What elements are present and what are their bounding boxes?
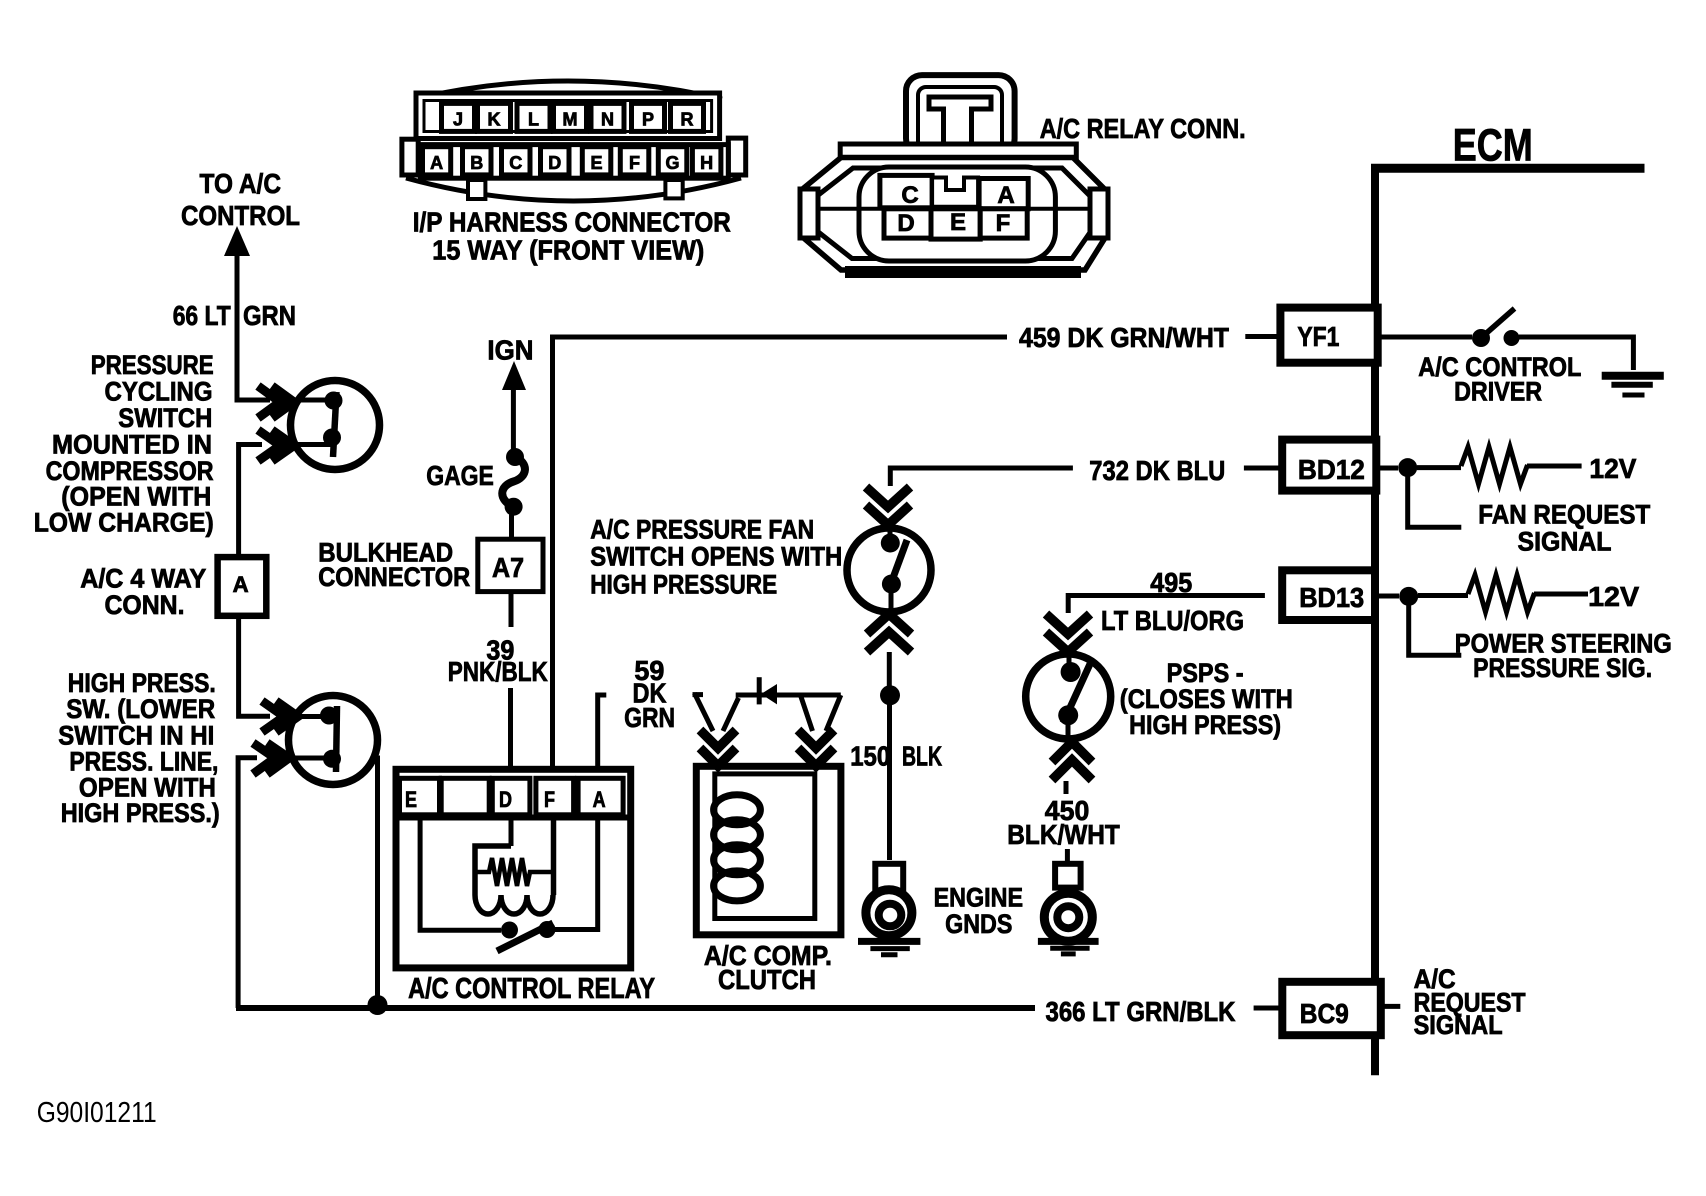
svg-text:15 WAY (FRONT VIEW): 15 WAY (FRONT VIEW) (432, 235, 704, 266)
svg-text:J: J (453, 110, 463, 130)
svg-text:HIGH PRESS): HIGH PRESS) (1129, 710, 1281, 740)
connector arrows into fan pressure switch top (866, 487, 910, 525)
svg-text:G: G (665, 153, 679, 173)
label ENGINE GNDS (934, 883, 1024, 939)
svg-text:C: C (509, 153, 522, 173)
relay K1 A/C control relay outer box (396, 769, 631, 968)
relay conn center key notch (932, 178, 978, 207)
label HIGH PRESS. SW. (LOWER SWITCH IN HI PRESS. LINE, OPEN WITH HIGH PRESS.) (58, 668, 219, 828)
label A/C REQUEST SIGNAL (1414, 964, 1526, 1040)
connector A (A/C 4 way conn.) (218, 557, 267, 616)
svg-text:CYCLING: CYCLING (105, 377, 213, 407)
svg-text:K: K (488, 110, 501, 130)
node TO A/C CONTROL label (181, 168, 300, 231)
svg-text:H: H (700, 153, 713, 173)
svg-text:HIGH PRESSURE: HIGH PRESSURE (590, 570, 777, 600)
svg-text:F: F (996, 210, 1011, 237)
connector arrows from high pressure switch pin 2 (253, 743, 289, 774)
label A/C CONTROL DRIVER (1418, 352, 1581, 407)
clutch coil windings (714, 795, 761, 901)
connector arrows from fan pressure switch bottom (867, 614, 911, 652)
svg-text:A/C 4 WAY: A/C 4 WAY (80, 564, 206, 594)
label FAN REQUEST SIGNAL (1478, 499, 1650, 556)
wire right V arrow into clutch (798, 695, 841, 766)
svg-text:GRN: GRN (624, 702, 675, 733)
svg-text:HIGH PRESS.): HIGH PRESS.) (61, 798, 220, 828)
relay coil cup (475, 846, 553, 914)
connector A7 (bulkhead connector) (478, 539, 543, 591)
ECM pin YF1 box (1280, 308, 1377, 363)
wire stub fan request signal (1408, 476, 1462, 527)
wire BD13 to 12V pull-up (1375, 594, 1399, 599)
wire stub power steering signal (1409, 604, 1462, 655)
svg-text:SWITCH OPENS WITH: SWITCH OPENS WITH (590, 542, 842, 572)
svg-text:D: D (897, 210, 914, 237)
svg-text:A/C RELAY CONN.: A/C RELAY CONN. (1040, 113, 1246, 144)
wire 459 DK GRN/WHT from relay pin F up and right (553, 337, 1008, 769)
svg-text:M: M (563, 110, 578, 130)
svg-text:12V: 12V (1589, 453, 1636, 484)
junction clutch/diode/fan switch net (880, 685, 900, 705)
relay internal wire pin A to switch contact (555, 818, 598, 930)
wire 39 PNK/BLK into relay pin D (508, 688, 513, 769)
label POWER STEERING PRESSURE SIG. (1455, 629, 1672, 683)
relay conn pin A (979, 179, 1028, 210)
svg-text:B: B (470, 153, 483, 173)
svg-text:P: P (642, 110, 654, 130)
relay internal wire pin F to coil (551, 818, 557, 896)
svg-text:366 LT GRN/BLK: 366 LT GRN/BLK (1046, 996, 1236, 1027)
wire 450 BLK/WHT to engine ground 2 (1065, 849, 1070, 864)
label BULKHEAD CONNECTOR (318, 537, 470, 592)
wire A connector to high pressure switch (239, 616, 270, 717)
resistor R1 pull-up (1461, 447, 1528, 484)
wire high pressure switch right stub down (372, 758, 378, 1004)
svg-text:495: 495 (1150, 567, 1192, 598)
connector pin N (591, 103, 624, 131)
wire PSPS to 450 BLK/WHT (1064, 781, 1069, 794)
value label 150 BLK (850, 740, 942, 771)
connector pin M (554, 103, 587, 131)
svg-text:SWITCH: SWITCH (118, 403, 212, 433)
label PRESSURE CYCLING SWITCH MOUNTED IN COMPRESSOR (OPEN WITH LOW CHARGE) (34, 350, 214, 538)
ECM pin BD13 box (1282, 570, 1375, 620)
relay conn pin F (980, 209, 1027, 238)
junction BD13 net (1399, 587, 1418, 606)
wire bottom net right segment into BC9 (1254, 1006, 1283, 1011)
svg-text:PNK/BLK: PNK/BLK (448, 656, 548, 687)
connector arrows into PSPS top (1046, 614, 1090, 652)
svg-text:D: D (499, 787, 512, 812)
label A/C PRESSURE FAN SWITCH OPENS WITH HIGH PRESSURE (590, 514, 842, 599)
ground engine ground symbol 1 (858, 864, 920, 955)
relay internal wire pin E to switch contact (420, 818, 501, 931)
wire relay pin A up to 59 DK GRN (598, 695, 607, 769)
connector A/C relay conn body (800, 75, 1108, 278)
svg-text:I/P HARNESS CONNECTOR: I/P HARNESS CONNECTOR (413, 206, 731, 237)
svg-text:F: F (629, 153, 640, 173)
relay pin D box (492, 778, 530, 815)
svg-text:SIGNAL: SIGNAL (1518, 527, 1612, 557)
connector arrows into pressure cycling switch pin 1 (258, 386, 294, 418)
connector arrows from pressure cycling switch pin 2 (258, 430, 294, 461)
svg-text:A: A (430, 153, 443, 173)
svg-text:LT BLU/ORG: LT BLU/ORG (1101, 605, 1244, 636)
relay pin F box (536, 778, 574, 815)
svg-text:MOUNTED IN: MOUNTED IN (52, 430, 212, 460)
value label 450 BLK/WHT (1007, 795, 1120, 850)
relay unlabeled pin box (441, 778, 489, 815)
svg-text:A7: A7 (492, 552, 524, 583)
relay conn pin E (931, 209, 980, 239)
svg-text:A/C PRESSURE FAN: A/C PRESSURE FAN (590, 514, 814, 544)
connector pin H (692, 147, 721, 175)
svg-text:SW. (LOWER: SW. (LOWER (66, 694, 215, 724)
svg-text:GNDS: GNDS (945, 909, 1012, 939)
connector pin P (632, 103, 665, 131)
relay pin E box (400, 778, 440, 815)
svg-text:CONTROL: CONTROL (181, 200, 300, 231)
connector pin D2 (541, 147, 570, 175)
connector pin F2 (620, 147, 649, 175)
svg-text:C: C (901, 182, 918, 209)
svg-text:PRESSURE SIG.: PRESSURE SIG. (1473, 653, 1652, 683)
svg-text:732 DK BLU: 732 DK BLU (1089, 455, 1225, 486)
connector pin E2 (582, 147, 611, 175)
connector pin B (463, 147, 492, 175)
wire stub BC9 to A/C request label (1381, 1004, 1401, 1009)
svg-text:BLK: BLK (902, 740, 942, 771)
wire left V arrow into clutch (693, 693, 739, 766)
svg-text:G90I01211: G90I01211 (37, 1097, 157, 1129)
wire 495 LT BLU/ORG from PSPS to BD13 (1068, 596, 1265, 614)
ECM pin BD12 box (1282, 440, 1376, 491)
svg-text:A: A (233, 572, 249, 597)
ground A/C control driver earth (1602, 376, 1664, 395)
pressure cycling switch S1 body (291, 381, 380, 470)
svg-text:150: 150 (850, 740, 890, 771)
svg-text:A/C CONTROL RELAY: A/C CONTROL RELAY (408, 973, 655, 1005)
diode D1 across clutch (736, 677, 841, 704)
svg-text:R: R (681, 110, 694, 130)
svg-text:PRESSURE: PRESSURE (91, 350, 214, 380)
connector pin L (517, 103, 550, 131)
label A/C COMP. CLUTCH (704, 940, 832, 995)
wire fan switch to junction (887, 652, 892, 686)
label A/C 4 WAY CONN. (80, 564, 206, 621)
svg-text:CONNECTOR: CONNECTOR (318, 562, 470, 592)
svg-text:12V: 12V (1588, 581, 1639, 612)
wire 459 into YF1 (1245, 334, 1280, 339)
svg-text:BC9: BC9 (1300, 998, 1349, 1029)
value label 66 LT GRN (173, 300, 296, 331)
svg-text:YF1: YF1 (1297, 321, 1339, 352)
svg-text:GAGE: GAGE (426, 460, 494, 491)
label PSPS - (CLOSES WITH HIGH PRESS) (1120, 658, 1293, 740)
svg-text:IGN: IGN (487, 335, 533, 366)
high pressure switch S2 body (289, 696, 378, 785)
connector pin G (658, 147, 687, 175)
svg-text:A: A (997, 182, 1014, 209)
svg-text:66 LT: 66 LT (173, 300, 231, 331)
wire resistor R1 to 12V (1527, 464, 1582, 469)
svg-text:A: A (593, 787, 606, 812)
wire high pressure switch to bottom net (238, 758, 257, 1008)
wire 150 BLK down to engine ground (887, 704, 892, 860)
ground engine ground symbol 2 (1038, 864, 1099, 954)
svg-text:TO A/C: TO A/C (200, 168, 282, 199)
relay conn pin D (884, 209, 931, 238)
svg-text:F: F (544, 787, 555, 812)
svg-text:BD13: BD13 (1299, 582, 1364, 613)
label I/P HARNESS CONNECTOR 15 WAY (FRONT VIEW) (413, 206, 731, 265)
relay internal wire pin D to coil (509, 818, 514, 847)
relay coil resistor zigzag (475, 858, 553, 886)
circuit breaker GAGE fuse symbol (502, 448, 525, 516)
svg-text:CONN.: CONN. (105, 590, 185, 620)
svg-text:BD12: BD12 (1298, 454, 1365, 485)
A/C pressure fan switch S3 body (847, 528, 931, 612)
svg-text:GRN: GRN (243, 300, 296, 331)
connector pin R (671, 103, 704, 131)
wire switch S1 to A/C 4 way connector (239, 445, 262, 559)
switch A/C control driver (1472, 309, 1520, 348)
svg-text:D: D (548, 153, 561, 173)
svg-text:N: N (601, 110, 614, 130)
connector pin J (442, 103, 475, 131)
svg-text:DRIVER: DRIVER (1454, 377, 1542, 407)
svg-text:L: L (528, 110, 539, 130)
wire 66 LT GRN up-arrow to pressure cycling switch (224, 226, 270, 400)
svg-text:ECM: ECM (1453, 120, 1533, 171)
wire BD12 to 12V pull-up (1376, 466, 1398, 471)
svg-text:459 DK GRN/WHT: 459 DK GRN/WHT (1019, 322, 1229, 353)
junction on bottom net (368, 995, 388, 1015)
relay pin A box (578, 778, 623, 815)
wire breaker to bulkhead connector A7 (509, 512, 514, 540)
value label 59 DK GRN (624, 655, 675, 733)
junction BD12 net (1398, 458, 1417, 477)
wire junction to resistor R2 (1418, 593, 1468, 598)
connector pin A2 (423, 147, 451, 175)
svg-text:E: E (590, 153, 602, 173)
svg-text:BLK/WHT: BLK/WHT (1007, 819, 1120, 850)
svg-text:FAN REQUEST: FAN REQUEST (1478, 499, 1650, 529)
relay conn pin C (880, 175, 932, 209)
wire junction to resistor R1 (1417, 465, 1461, 470)
value label 39 PNK/BLK (448, 635, 548, 688)
svg-text:E: E (950, 209, 966, 236)
connector I/P harness 15-way body (402, 81, 746, 201)
relay switch contacts and lever (497, 921, 556, 951)
connector arrows into high pressure switch pin 1 (262, 701, 298, 732)
ECM pin BC9 box (1282, 982, 1381, 1035)
wire A7 to 39 PNK/BLK (509, 592, 514, 627)
power steering pressure switch S4 PSPS body (1026, 654, 1111, 739)
svg-text:SIGNAL: SIGNAL (1414, 1010, 1503, 1040)
wire IGN arrow (502, 361, 526, 450)
svg-text:CLUTCH: CLUTCH (718, 964, 816, 995)
resistor R2 pull-up (1468, 575, 1535, 612)
svg-text:LOW CHARGE): LOW CHARGE) (34, 508, 214, 538)
wire resistor R2 to 12V (1534, 592, 1588, 597)
wire driver switch to ground (1519, 337, 1633, 370)
value label 495 LT BLU/ORG (1101, 567, 1244, 636)
connector pin K (478, 103, 511, 131)
connector arrows from PSPS bottom (1052, 742, 1092, 780)
wire bottom net 366 LT GRN/BLK (236, 1005, 1035, 1011)
wire YF1 to A/C control driver switch (1378, 335, 1472, 340)
wire 732 into BD12 (1244, 466, 1282, 471)
svg-text:E: E (405, 787, 417, 812)
A/C comp clutch L1 outer box (696, 766, 841, 935)
wire 732 DK BLU from fan switch to BD12 (890, 468, 1073, 486)
ECM module boundary (1371, 120, 1645, 1075)
connector pin C (502, 147, 531, 175)
